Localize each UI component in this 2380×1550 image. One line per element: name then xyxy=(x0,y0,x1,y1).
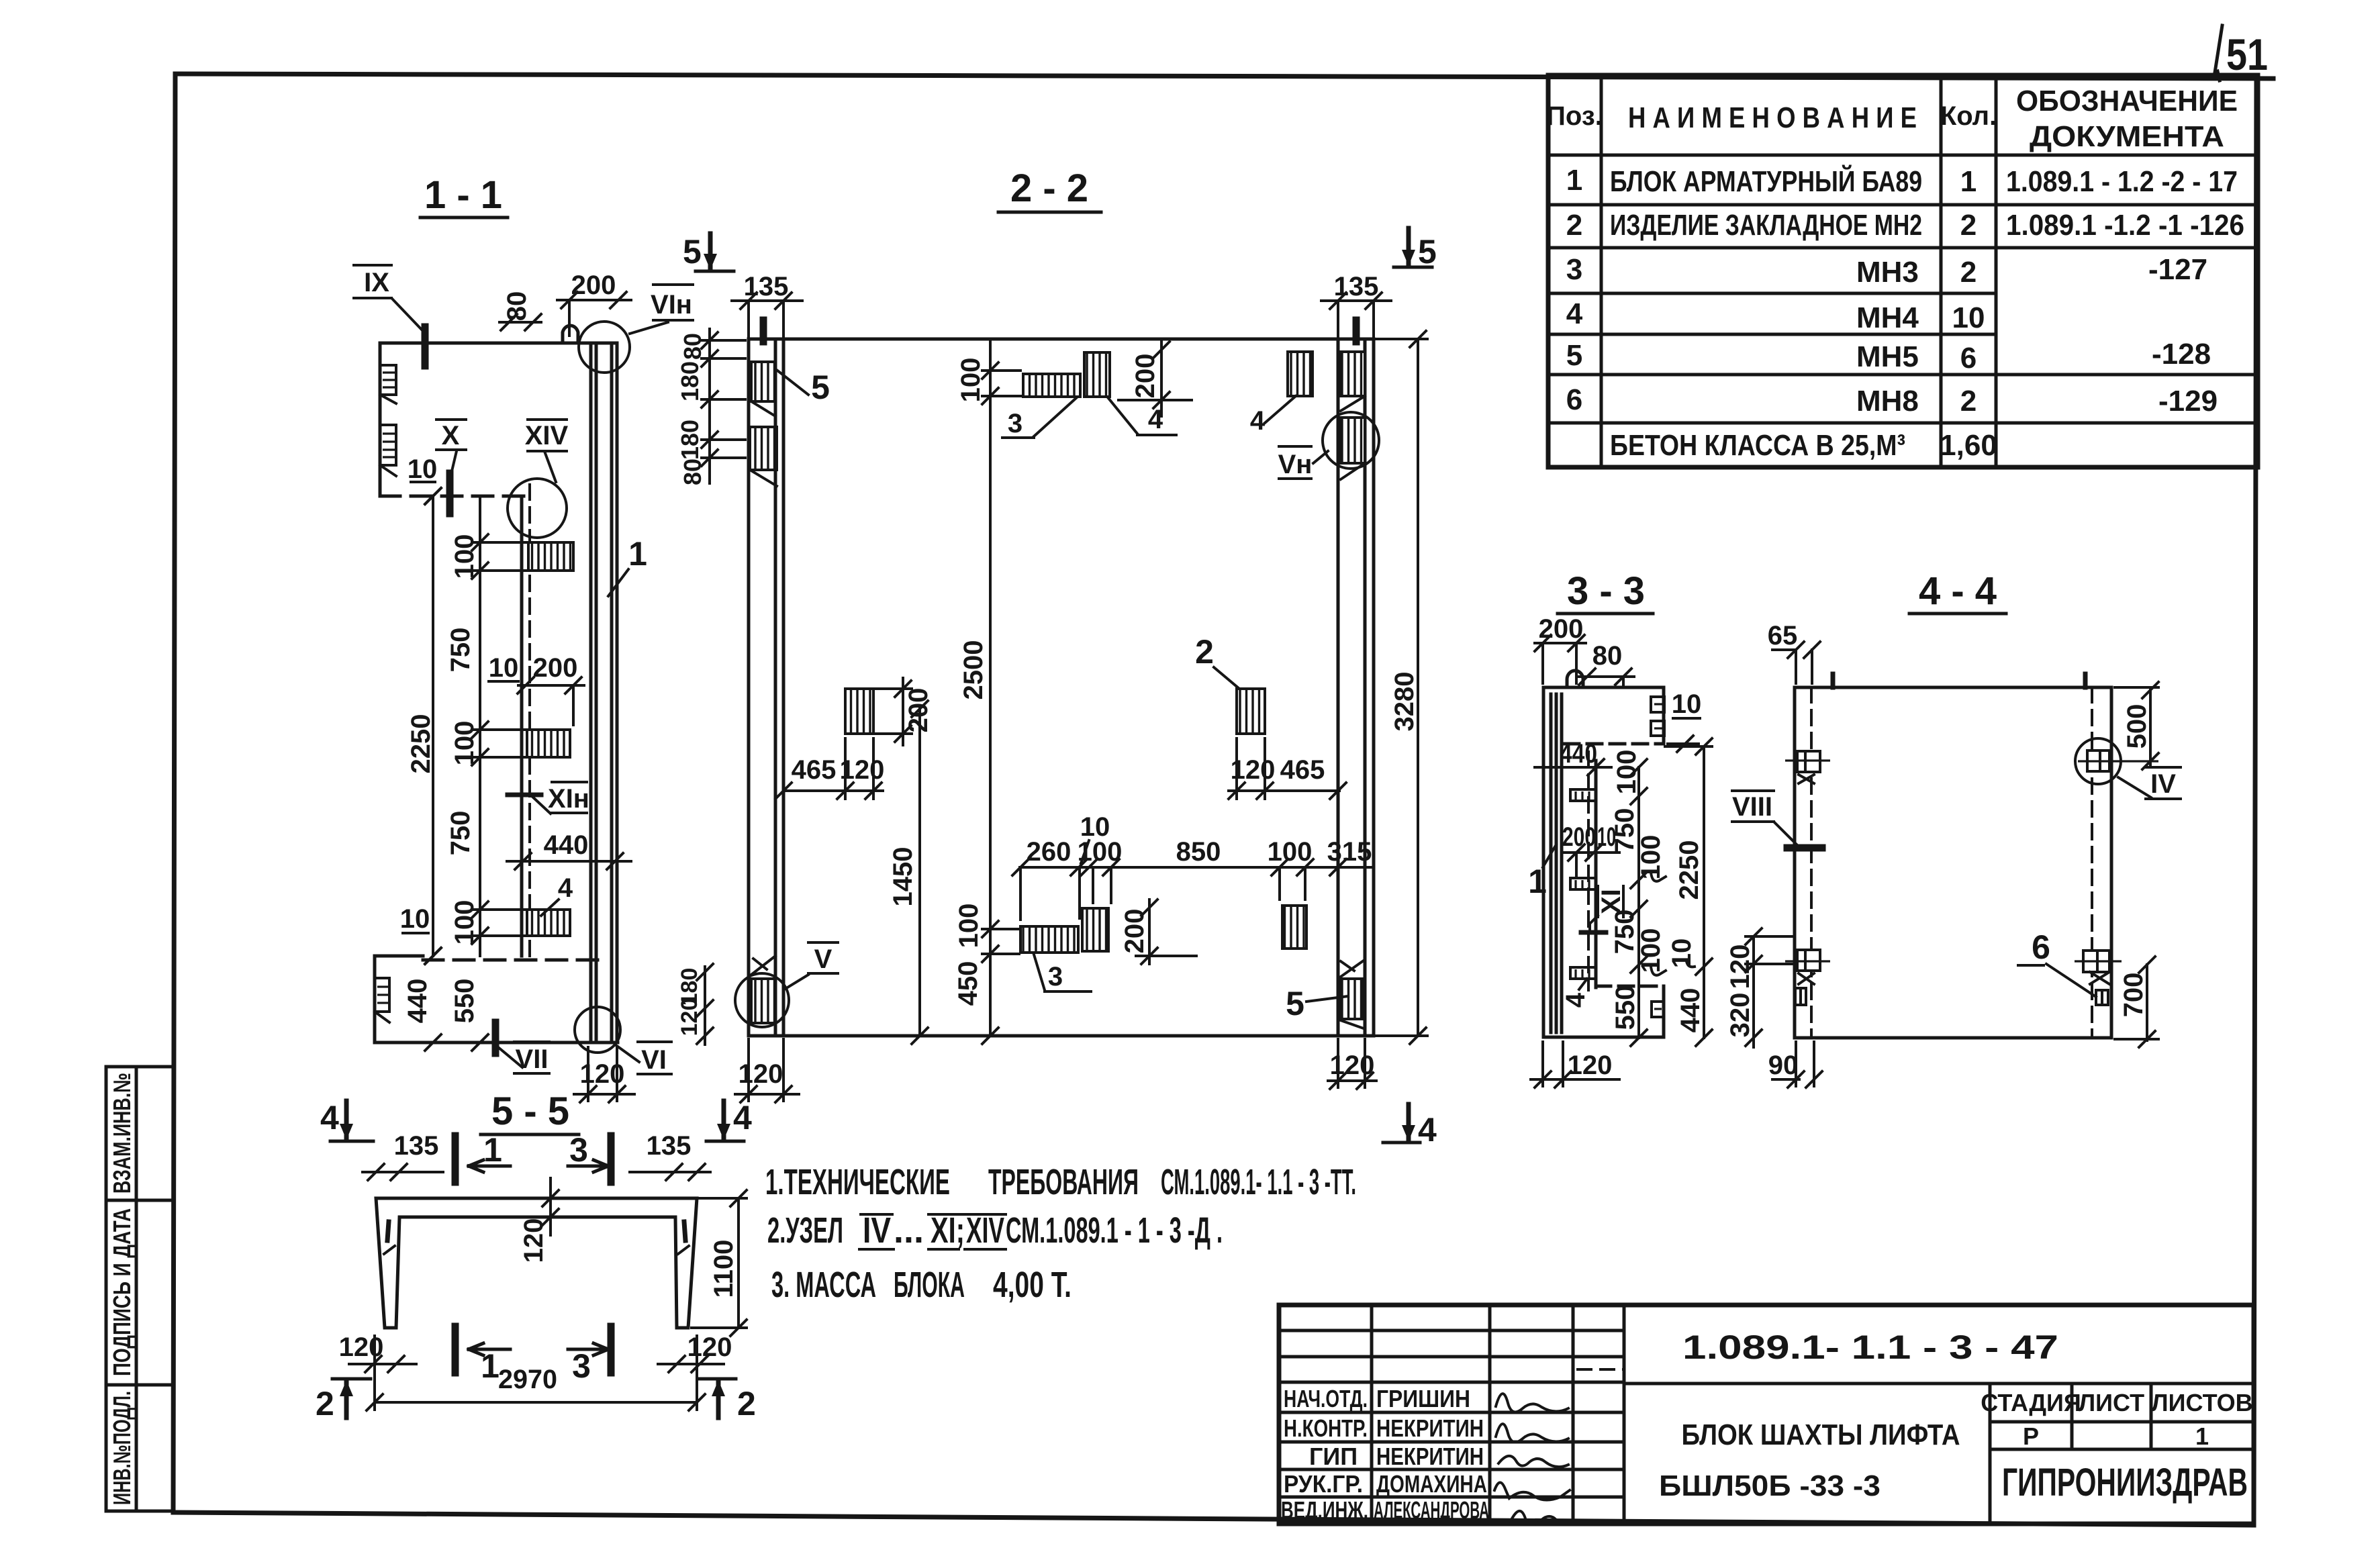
view 4-4 node VIII xyxy=(1732,791,1822,848)
svg-text:...: ... xyxy=(894,1210,924,1251)
svg-text:IV: IV xyxy=(863,1210,891,1251)
svg-text:1.ТЕХНИЧЕСКИЕ: 1.ТЕХНИЧЕСКИЕ xyxy=(765,1162,950,1202)
view 4-4 label 6 xyxy=(2018,928,2096,997)
view 5-5 section mark 4 left xyxy=(320,1099,373,1141)
svg-text:2500: 2500 xyxy=(959,640,988,700)
svg-text:65: 65 xyxy=(1768,621,1798,650)
view 2-2 dim 120 bottom right xyxy=(1328,1039,1376,1089)
svg-text:5: 5 xyxy=(1566,339,1582,372)
svg-text:2250: 2250 xyxy=(406,714,436,774)
svg-text:120: 120 xyxy=(1231,755,1276,785)
svg-text:1.089.1- 1.1 - 3 - 47: 1.089.1- 1.1 - 3 - 47 xyxy=(1682,1328,2058,1366)
view 2-2 dim 1450 xyxy=(888,701,928,1044)
svg-text:ОБОЗНАЧЕНИЕ: ОБОЗНАЧЕНИЕ xyxy=(2016,85,2238,117)
view 3-3 inner chain 100/750 xyxy=(1610,750,1647,1046)
view 5-5 dim 135 top right xyxy=(630,1131,710,1180)
svg-text:6: 6 xyxy=(1566,383,1582,416)
view 3-3 dim 120 bottom xyxy=(1531,1042,1619,1087)
view 2-2 dim 200 bottom xyxy=(1120,900,1196,964)
view 4-4 dim 500 xyxy=(2115,682,2158,769)
svg-text:135: 135 xyxy=(744,272,789,301)
view 1-1 detail circle VI xyxy=(575,1007,671,1075)
view 1-1 dim 10/200 middle xyxy=(489,653,584,725)
svg-text:НЕКРИТИН: НЕКРИТИН xyxy=(1376,1443,1484,1470)
title block bottom right xyxy=(1279,1305,2254,1524)
svg-text:80: 80 xyxy=(502,291,532,322)
svg-text:100: 100 xyxy=(1268,837,1313,867)
svg-text:120: 120 xyxy=(1725,944,1755,989)
view 3-3 label 4 xyxy=(1561,979,1590,1008)
svg-text:МН5: МН5 xyxy=(1856,340,1919,373)
view 2-2 bottom center hatch 3 xyxy=(1020,926,1091,991)
svg-text:ИЗДЕЛИЕ ЗАКЛАДНОЕ МН2: ИЗДЕЛИЕ ЗАКЛАДНОЕ МН2 xyxy=(1610,209,1922,242)
view 1-1 dim 200 top xyxy=(557,271,631,336)
view 1-1 bottom keyway tab xyxy=(375,978,389,1022)
svg-text:Кол.: Кол. xyxy=(1940,101,1997,131)
svg-text:2970: 2970 xyxy=(498,1365,557,1394)
svg-text:VII: VII xyxy=(516,1045,549,1074)
svg-text:2: 2 xyxy=(1960,256,1977,289)
svg-text:БЕТОН КЛАССА В 25,М³: БЕТОН КЛАССА В 25,М³ xyxy=(1610,429,1905,462)
view 2-2 dim 120/465 right xyxy=(1229,738,1346,799)
view 1-1 panel wall lines xyxy=(591,343,617,1043)
svg-text:3: 3 xyxy=(1048,962,1063,991)
svg-text:V: V xyxy=(814,944,832,974)
view 2-2 top center hatch 4 xyxy=(1084,352,1176,435)
view 1-1 dims 440/550 bottom xyxy=(403,979,488,1051)
svg-text:10: 10 xyxy=(408,454,438,484)
svg-text:Поз.: Поз. xyxy=(1546,101,1603,131)
svg-text:1: 1 xyxy=(2195,1422,2209,1450)
view 4-4 dim 90 bottom xyxy=(1768,1042,1822,1087)
view 3-3 dim 80 xyxy=(1579,641,1634,687)
svg-text:80: 80 xyxy=(1592,641,1623,671)
svg-text:ДОКУМЕНТА: ДОКУМЕНТА xyxy=(2030,120,2224,153)
svg-text:2: 2 xyxy=(737,1385,756,1422)
view 1-1 inner wall face xyxy=(522,485,530,960)
svg-text:200: 200 xyxy=(904,688,933,733)
svg-text:БЛОК ШАХТЫ ЛИФТА: БЛОК ШАХТЫ ЛИФТА xyxy=(1682,1418,1960,1451)
svg-text:5 - 5: 5 - 5 xyxy=(491,1089,569,1133)
view 2-2 section mark 5 top right xyxy=(1394,228,1437,271)
svg-text:550: 550 xyxy=(1611,985,1640,1030)
svg-text:2.УЗЕЛ: 2.УЗЕЛ xyxy=(767,1210,843,1251)
svg-text:1: 1 xyxy=(1566,164,1582,197)
view 5-5 leg ticks xyxy=(384,1222,689,1254)
page number 51 xyxy=(2215,26,2268,81)
svg-text:2: 2 xyxy=(1566,209,1582,242)
svg-text:260: 260 xyxy=(1027,837,1072,867)
view 1-1 dim chain 2250 xyxy=(406,488,441,964)
svg-text:440: 440 xyxy=(403,979,432,1024)
view 4-4 left wall embed bottom xyxy=(1785,950,1830,984)
svg-text:10: 10 xyxy=(1667,938,1697,969)
svg-text:4 - 4: 4 - 4 xyxy=(1919,569,1997,613)
svg-text:1: 1 xyxy=(1528,863,1547,900)
svg-text:3 - 3: 3 - 3 xyxy=(1567,569,1645,613)
view 2-2 bottom center hatch 4 xyxy=(1082,908,1108,951)
svg-text:5: 5 xyxy=(1418,233,1437,271)
svg-text:XIV: XIV xyxy=(966,1210,1004,1251)
view 1-1 left edge keyway tabs xyxy=(380,365,396,476)
svg-text:ИНВ.№ПОДЛ.: ИНВ.№ПОДЛ. xyxy=(108,1391,136,1505)
svg-text:10: 10 xyxy=(1952,301,1985,334)
svg-text:120: 120 xyxy=(677,998,702,1036)
view 1-1 dim 440 xyxy=(507,830,631,869)
svg-text:4: 4 xyxy=(1561,992,1590,1008)
svg-text:ДОМАХИНА: ДОМАХИНА xyxy=(1376,1470,1487,1498)
view 1-1 section node VII xyxy=(495,1022,549,1074)
view 4-4 dim 700 xyxy=(2115,957,2158,1047)
view 5-5 dim 1100 right xyxy=(692,1190,747,1336)
view 2-2 right wall hatch tab top xyxy=(1341,352,1365,411)
svg-text:90: 90 xyxy=(1768,1051,1799,1080)
svg-text:450: 450 xyxy=(953,961,983,1006)
svg-text:НАЧ.ОТД.: НАЧ.ОТД. xyxy=(1284,1385,1368,1412)
view 3-3 top edge tabs xyxy=(1651,697,1664,736)
view 2-2 left wall hatch tabs xyxy=(750,362,777,486)
signatures xyxy=(1494,1394,1570,1524)
svg-text:РУК.ГР.: РУК.ГР. xyxy=(1284,1470,1363,1498)
svg-text:VIII: VIII xyxy=(1732,792,1772,822)
svg-text:ВЕД.ИНЖ.: ВЕД.ИНЖ. xyxy=(1281,1496,1368,1524)
view 4-4 outline xyxy=(1795,687,2111,1038)
svg-text:200: 200 xyxy=(1562,822,1596,852)
view 2-2 top center hatch 3 xyxy=(1002,374,1080,438)
svg-text:Р: Р xyxy=(2023,1422,2039,1450)
view 5-5 section tick 1 bottom xyxy=(455,1326,510,1385)
svg-text:VIн: VIн xyxy=(651,290,692,320)
svg-text:XIн: XIн xyxy=(548,784,589,814)
view 4-4 bottom left tab xyxy=(1795,988,1806,1005)
view 5-5 section tick 1 top xyxy=(455,1131,510,1182)
svg-text:120: 120 xyxy=(739,1059,783,1089)
view 1-1 dim 120 below wall xyxy=(574,1047,634,1102)
view 2-2 left chain 80/180/180/80 xyxy=(676,329,745,485)
svg-text:315: 315 xyxy=(1327,837,1372,867)
view 1-1 heading xyxy=(420,173,508,217)
svg-text:ЛИСТОВ: ЛИСТОВ xyxy=(2151,1389,2252,1416)
svg-text:750: 750 xyxy=(446,628,475,673)
svg-text:1: 1 xyxy=(483,1131,502,1169)
view 2-2 left wall lines xyxy=(775,339,783,1036)
view 1-1 dim 10 bottom xyxy=(400,904,441,964)
left margin stamp column xyxy=(106,1067,174,1511)
svg-text:180: 180 xyxy=(676,420,704,460)
view 5-5 heading xyxy=(481,1089,579,1134)
svg-text:XIV: XIV xyxy=(525,421,569,450)
parts table top right xyxy=(1546,75,2258,467)
view 1-1 section node IX xyxy=(354,265,425,366)
svg-text:200: 200 xyxy=(1120,909,1149,954)
notes xyxy=(765,1162,1356,1305)
svg-text:1 - 1: 1 - 1 xyxy=(424,173,502,217)
view 2-2 heading xyxy=(998,166,1101,212)
svg-text:2250: 2250 xyxy=(1674,840,1704,900)
view 2-2 dim 135 right xyxy=(1321,272,1391,339)
view 5-5 dim 2970 xyxy=(367,1336,705,1410)
view 5-5 section mark 2 left xyxy=(316,1379,371,1422)
view 4-4 top ticks xyxy=(1833,674,2085,687)
view 3-3 lifting loop xyxy=(1567,671,1583,687)
svg-text:120: 120 xyxy=(1568,1051,1613,1080)
view 2-2 top right hatch 4 xyxy=(1250,352,1313,436)
svg-text:ТРЕБОВАНИЯ: ТРЕБОВАНИЯ xyxy=(988,1162,1139,1202)
svg-text:500: 500 xyxy=(2122,704,2152,749)
view 5-5 section mark 2 right xyxy=(698,1379,756,1422)
view 2-2 circle Vn xyxy=(1278,412,1379,479)
view 2-2 right wall lines xyxy=(1338,339,1365,1036)
svg-text:465: 465 xyxy=(792,755,837,785)
view 1-1 section node X xyxy=(436,420,466,514)
svg-text:МН8: МН8 xyxy=(1856,385,1919,418)
svg-text:440: 440 xyxy=(544,830,589,860)
view 3-3 node XI xyxy=(1581,886,1626,932)
view 2-2 circle V xyxy=(735,942,838,1027)
view 1-1 bottom hook outline xyxy=(375,956,618,1043)
svg-text:ГИП: ГИП xyxy=(1309,1443,1358,1470)
view 4-4 bottom right tab xyxy=(2096,990,2108,1005)
svg-text:ВЗАМ.ИНВ.№: ВЗАМ.ИНВ.№ xyxy=(108,1073,136,1194)
view 3-3 bottom edge tab xyxy=(1652,1002,1664,1017)
svg-text:100: 100 xyxy=(450,900,479,945)
view 3-3 heading xyxy=(1558,569,1653,614)
svg-text:-127: -127 xyxy=(2148,253,2207,286)
view 2-2 wall top ticks xyxy=(763,320,1356,342)
view 5-5 dim 135 top left xyxy=(363,1131,443,1180)
svg-text:3. МАССА: 3. МАССА xyxy=(771,1265,876,1305)
view 1-1 label 4 xyxy=(541,873,573,916)
svg-text:СТАДИЯ: СТАДИЯ xyxy=(1981,1389,2081,1416)
svg-text:4: 4 xyxy=(733,1099,752,1136)
view 1-1 detail circle XIV xyxy=(508,420,569,538)
view 3-3 panel wall lines xyxy=(1543,687,1562,1037)
svg-text:135: 135 xyxy=(647,1131,692,1161)
svg-text:ГИПРОНИИЗДРАВ: ГИПРОНИИЗДРАВ xyxy=(2002,1461,2248,1504)
svg-text:120: 120 xyxy=(687,1333,732,1362)
svg-text:4: 4 xyxy=(558,873,573,903)
svg-text:550: 550 xyxy=(450,979,479,1024)
svg-text:135: 135 xyxy=(394,1131,439,1161)
svg-text:120: 120 xyxy=(339,1333,384,1362)
view 4-4 right wall embed bottom xyxy=(2075,951,2122,984)
svg-text:1.089.1 - 1.2 -2 - 17: 1.089.1 - 1.2 -2 - 17 xyxy=(2006,165,2238,198)
svg-text:6: 6 xyxy=(2032,928,2050,966)
view 3-3 dim 2250 chain xyxy=(1665,738,1712,1046)
svg-text:1100: 1100 xyxy=(709,1240,739,1298)
svg-text:100: 100 xyxy=(954,904,984,949)
view 4-4 dims 120/320 left xyxy=(1725,928,1794,1047)
view 2-2 mid left hatch xyxy=(845,678,933,745)
view 2-2 mid right hatch 2 xyxy=(1195,633,1265,734)
svg-text:100: 100 xyxy=(1078,837,1123,867)
svg-text:3: 3 xyxy=(1008,409,1022,438)
svg-text:120: 120 xyxy=(519,1218,549,1263)
view 3-3 body outline xyxy=(1543,687,1664,1037)
svg-text:200: 200 xyxy=(1131,354,1160,399)
svg-text:100: 100 xyxy=(450,534,479,579)
view 2-2 bottom right hatch xyxy=(1282,906,1306,949)
svg-text:6: 6 xyxy=(1960,342,1977,375)
svg-text:2: 2 xyxy=(1960,209,1977,242)
view 3-3 embed tabs on inner face xyxy=(1570,789,1596,979)
svg-text:120: 120 xyxy=(840,755,885,785)
svg-text:1: 1 xyxy=(1960,165,1977,198)
view 3-3 hooked dims 100 xyxy=(1636,835,1666,975)
svg-text:5: 5 xyxy=(811,369,830,406)
svg-text:850: 850 xyxy=(1176,837,1221,867)
view 3-3 label 1 xyxy=(1528,844,1556,900)
svg-text:МН3: МН3 xyxy=(1856,256,1919,289)
view 2-2 dim 100 top xyxy=(953,339,1020,1044)
view 5-5 dim 120 bottom right xyxy=(658,1333,732,1372)
svg-text:IV: IV xyxy=(2150,769,2176,799)
view 5-5 section tick 3 bottom xyxy=(568,1326,611,1385)
svg-text:440: 440 xyxy=(1676,988,1705,1033)
view 2-2 dim 465/120 left xyxy=(775,738,884,799)
svg-text:1,60: 1,60 xyxy=(1940,429,1997,462)
svg-text:1: 1 xyxy=(628,535,647,573)
svg-text:ЛИСТ: ЛИСТ xyxy=(2079,1389,2144,1416)
view 2-2 bottom dim chain 260/10/100/850/100/315 xyxy=(1012,812,1374,920)
view 5-5 channel outline xyxy=(376,1198,697,1328)
view 3-3 dim 200/10 mid xyxy=(1562,822,1619,877)
svg-text:IX: IX xyxy=(364,268,389,297)
svg-text:10: 10 xyxy=(400,904,430,934)
view 5-5 dim 120 bottom left xyxy=(339,1333,416,1372)
svg-text:БШЛ50Б -33 -3: БШЛ50Б -33 -3 xyxy=(1659,1469,1881,1502)
svg-text:ГРИШИН: ГРИШИН xyxy=(1376,1385,1470,1412)
svg-text:3: 3 xyxy=(572,1347,591,1385)
view 2-2 dim 200 top xyxy=(1118,339,1192,416)
svg-text:1450: 1450 xyxy=(888,847,918,907)
view 5-5 section mark 4 right xyxy=(706,1099,752,1141)
view 2-2 outer outline xyxy=(749,339,1374,1036)
view 1-1 label 1 xyxy=(608,535,647,596)
svg-text:X: X xyxy=(442,421,460,450)
view 1-1 dim 10 top xyxy=(408,454,441,504)
svg-text:XI: XI xyxy=(1597,889,1626,914)
view 2-2 section mark 4 bottom right xyxy=(1383,1104,1437,1149)
view 1-1 top wall outline xyxy=(380,343,615,496)
view 1-1 section mark 5 top xyxy=(683,233,734,271)
svg-text:100: 100 xyxy=(450,721,479,766)
svg-text:4: 4 xyxy=(1250,406,1266,436)
svg-text:5: 5 xyxy=(683,233,702,271)
svg-text:VI: VI xyxy=(641,1045,667,1075)
svg-text:1.089.1 -1.2 -1 -126: 1.089.1 -1.2 -1 -126 xyxy=(2006,209,2244,242)
svg-text:80: 80 xyxy=(679,458,706,485)
view 2-2 dim 3280 xyxy=(1376,331,1427,1044)
svg-text:120: 120 xyxy=(1330,1051,1375,1080)
svg-text:ПОДПИСЬ И ДАТА: ПОДПИСЬ И ДАТА xyxy=(108,1208,136,1376)
view 1-1 stiffener hatch block 1 xyxy=(528,542,573,571)
view 1-1 dim chain 100/750 xyxy=(446,496,537,956)
view 1-1 dim 80 top xyxy=(499,291,541,330)
svg-text:320: 320 xyxy=(1725,993,1755,1038)
svg-text:-128: -128 xyxy=(2152,338,2211,371)
view 4-4 left wall embed top xyxy=(1785,751,1830,783)
svg-text:10: 10 xyxy=(489,653,519,683)
view 2-2 label 5 bottom right xyxy=(1286,985,1348,1022)
view 3-3 dim 440 upper xyxy=(1535,739,1611,775)
svg-text:МН4: МН4 xyxy=(1856,301,1919,334)
svg-text:5: 5 xyxy=(1286,985,1304,1022)
view 3-3 dim 200 top xyxy=(1535,614,1586,683)
svg-text:3: 3 xyxy=(569,1131,588,1169)
view 1-1 detail circle VIn xyxy=(579,285,693,373)
view 2-2 dim 135 left xyxy=(732,272,802,339)
view 4-4 dim 65 xyxy=(1768,621,1820,683)
view 2-2 dim 120 bottom left xyxy=(735,1039,799,1102)
svg-text:Н А И М Е Н О В А Н И Е: Н А И М Е Н О В А Н И Е xyxy=(1628,101,1917,134)
svg-text:200: 200 xyxy=(533,653,578,683)
view 4-4 circle IV xyxy=(2075,738,2181,799)
view 5-5 dim 120 mid xyxy=(519,1178,559,1263)
svg-text:2 - 2: 2 - 2 xyxy=(1010,166,1088,210)
svg-text:4: 4 xyxy=(320,1099,339,1136)
svg-text:3280: 3280 xyxy=(1390,672,1419,732)
svg-text:180: 180 xyxy=(676,361,704,401)
view 4-4 heading xyxy=(1909,569,2006,614)
svg-text:СМ.1.089.1 - 1 - 3 -Д .: СМ.1.089.1 - 1 - 3 -Д . xyxy=(1006,1210,1223,1251)
svg-text:Н.КОНТР.: Н.КОНТР. xyxy=(1284,1414,1368,1442)
svg-text:4: 4 xyxy=(1566,297,1583,330)
view 5-5 section tick 3 top xyxy=(568,1131,611,1182)
svg-text:2: 2 xyxy=(1195,633,1214,671)
view 1-1 node XIn xyxy=(508,782,589,814)
svg-text:100: 100 xyxy=(1612,750,1641,795)
svg-text:2: 2 xyxy=(1960,385,1977,418)
svg-text:СМ.1.089.1- 1.1 - 3 -ТТ.: СМ.1.089.1- 1.1 - 3 -ТТ. xyxy=(1161,1162,1356,1202)
svg-text:2: 2 xyxy=(316,1385,334,1422)
svg-text:АЛЕКСАНДРОВА: АЛЕКСАНДРОВА xyxy=(1374,1496,1489,1524)
view 1-1 stiffener hatch block 2 xyxy=(527,730,570,757)
svg-text:440: 440 xyxy=(1560,739,1597,769)
view 2-2 label 5 top left xyxy=(777,369,830,406)
svg-text:4,00 Т.: 4,00 Т. xyxy=(993,1265,1072,1305)
svg-text:100: 100 xyxy=(956,358,986,403)
svg-text:НЕКРИТИН: НЕКРИТИН xyxy=(1376,1414,1484,1442)
view 2-2 right wall hatch tab bottom xyxy=(1341,961,1364,1028)
svg-text:700: 700 xyxy=(2119,973,2148,1018)
svg-text:1: 1 xyxy=(481,1347,499,1385)
view 1-1 lifting loop xyxy=(563,326,578,343)
view 3-3 dim 10 right top xyxy=(1668,689,1701,752)
svg-text:-129: -129 xyxy=(2158,385,2218,418)
svg-text:XI;: XI; xyxy=(931,1210,965,1251)
svg-text:465: 465 xyxy=(1280,755,1325,785)
svg-text:200: 200 xyxy=(571,271,616,300)
svg-text:БЛОКА: БЛОКА xyxy=(894,1265,965,1305)
svg-text:3: 3 xyxy=(1566,253,1582,286)
svg-text:Vн: Vн xyxy=(1278,450,1313,479)
svg-text:51: 51 xyxy=(2226,30,2268,79)
view 2-2 left chain bottom 180/120 xyxy=(677,964,713,1045)
svg-text:80: 80 xyxy=(679,333,706,360)
svg-text:10: 10 xyxy=(1672,689,1702,719)
svg-text:750: 750 xyxy=(446,811,475,856)
view 1-1 stiffener hatch block 3 xyxy=(527,910,570,936)
svg-text:БЛОК АРМАТУРНЫЙ БА89: БЛОК АРМАТУРНЫЙ БА89 xyxy=(1610,164,1922,198)
